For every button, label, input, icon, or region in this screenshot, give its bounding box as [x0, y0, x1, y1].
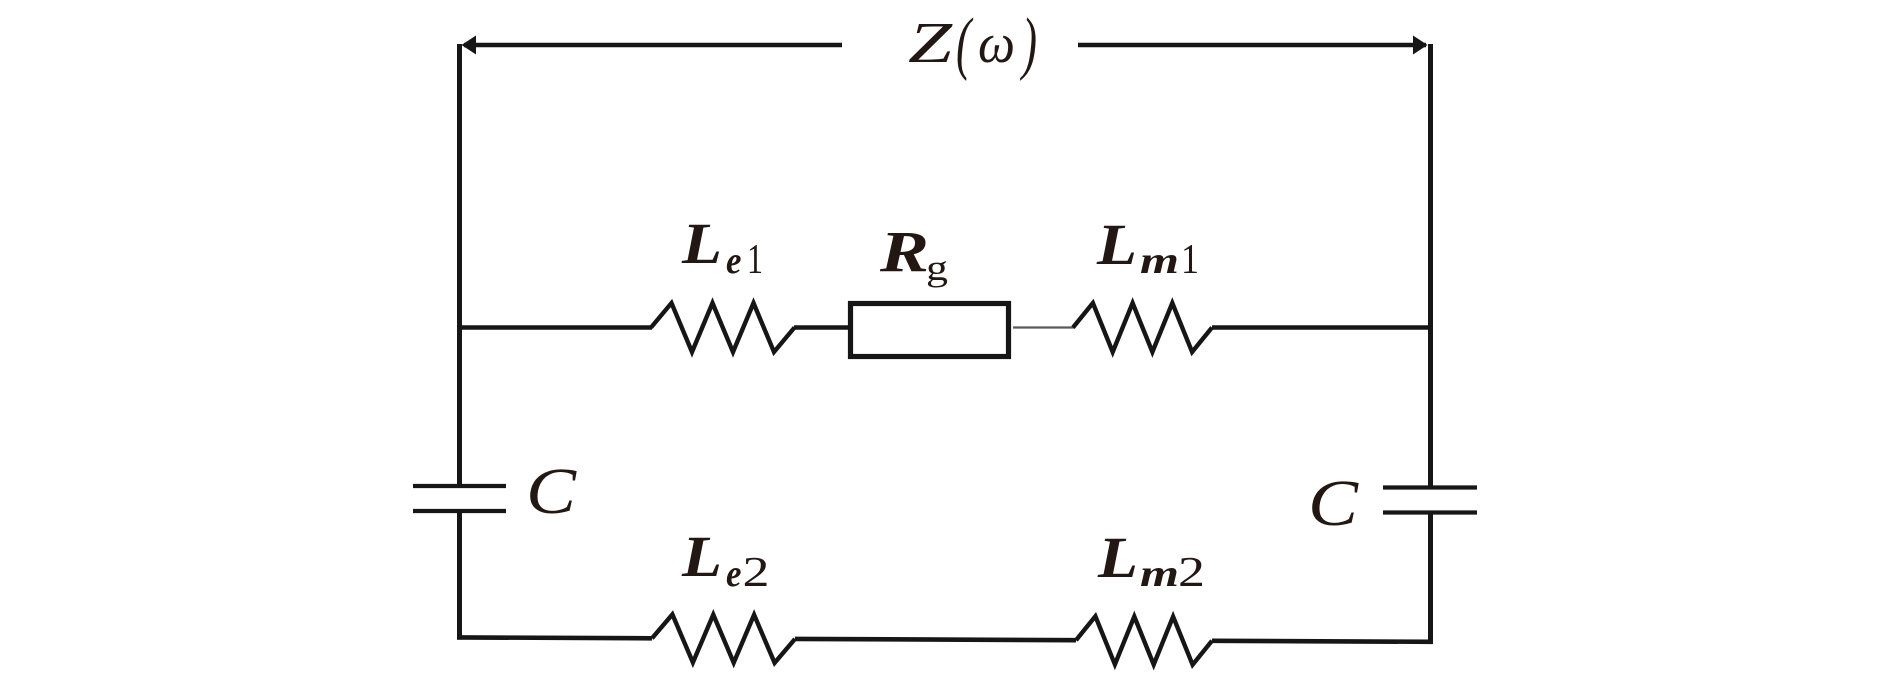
svg-text:m: m: [1140, 553, 1179, 595]
svg-text:Z: Z: [908, 10, 953, 75]
wire right vertical lower: [1428, 511, 1433, 645]
svg-text:C: C: [526, 455, 577, 528]
svg-text:e: e: [726, 240, 742, 282]
svg-text:ω: ω: [978, 13, 1015, 75]
dimension arrow line left segment: [464, 43, 842, 48]
capacitor C (left) bottom plate: [413, 509, 506, 513]
svg-text:g: g: [926, 248, 948, 288]
arrowhead right: [1413, 36, 1428, 55]
wire middle branch left: [457, 325, 652, 330]
svg-text:1: 1: [747, 237, 763, 283]
wire bottom branch middle: [795, 639, 1076, 640]
svg-text:): ): [1019, 5, 1037, 82]
label R_g: [879, 219, 948, 288]
inductor L_e1 zigzag: [651, 303, 795, 352]
svg-text:C: C: [1308, 467, 1359, 540]
inductor L_m1 zigzag: [1073, 303, 1212, 352]
svg-text:(: (: [956, 5, 973, 82]
arrowhead left: [462, 36, 477, 55]
label L_m2: [1097, 525, 1205, 596]
capacitor C (left) top plate: [413, 484, 506, 488]
inductor L_m2 zigzag: [1076, 616, 1212, 664]
svg-text:1: 1: [1181, 237, 1199, 283]
svg-text:L: L: [681, 524, 722, 589]
svg-text:L: L: [1097, 525, 1138, 590]
svg-text:L: L: [681, 211, 722, 276]
dimension arrow line right segment: [1078, 43, 1426, 48]
wire right vertical upper: [1428, 44, 1433, 487]
resistor R_g box: [851, 304, 1009, 357]
wire middle branch right: [1212, 325, 1433, 330]
thin wire between R_g and L_m1: [1013, 326, 1075, 328]
label L_e2: [681, 524, 770, 596]
svg-text:2: 2: [1178, 550, 1205, 596]
capacitor C (right) top plate: [1383, 485, 1477, 489]
svg-text:R: R: [879, 219, 929, 284]
wire between L_e1 and R_g: [794, 325, 851, 330]
inductor L_e2 zigzag: [652, 614, 795, 663]
capacitor C (right) bottom plate: [1383, 510, 1477, 514]
wire bottom branch left: [457, 635, 652, 640]
wire bottom branch right: [1212, 641, 1433, 642]
wire left vertical lower: [457, 510, 462, 640]
label L_m1: [1096, 212, 1199, 283]
wire left vertical upper: [457, 44, 462, 486]
label L_e1: [681, 211, 763, 283]
svg-text:2: 2: [743, 550, 770, 596]
svg-text:L: L: [1096, 212, 1137, 277]
label Z(omega): [908, 5, 1037, 82]
svg-text:e: e: [726, 553, 742, 595]
svg-text:m: m: [1140, 240, 1179, 282]
